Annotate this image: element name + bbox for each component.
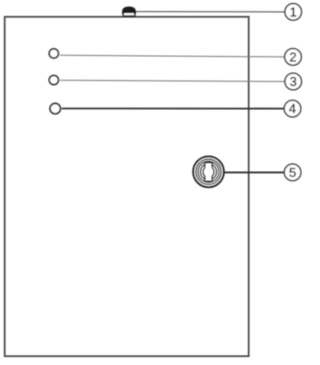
svg-text:3: 3	[290, 74, 297, 89]
svg-text:2: 2	[289, 50, 296, 65]
svg-text:4: 4	[289, 101, 296, 116]
svg-text:5: 5	[289, 165, 296, 180]
svg-text:1: 1	[290, 5, 297, 20]
